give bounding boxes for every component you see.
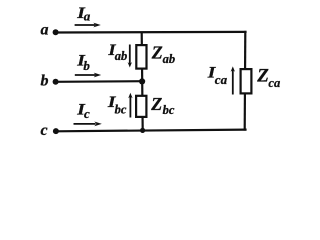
impedance Z_ab body <box>136 45 146 69</box>
svg-text:Z: Z <box>150 94 162 114</box>
terminal node a <box>53 29 59 35</box>
impedance Z_ca body <box>241 69 252 93</box>
label I_a <box>76 5 91 24</box>
svg-text:b: b <box>83 58 90 73</box>
svg-text:a: a <box>84 8 91 23</box>
junction dot on c line <box>140 128 145 133</box>
svg-text:ab: ab <box>115 49 128 63</box>
svg-text:Z: Z <box>256 65 269 86</box>
impedance Z_bc body <box>136 96 146 117</box>
current arrow I_a <box>75 23 101 28</box>
wire left branch vertical (a to c via Z_ab, Z_bc) <box>142 32 143 131</box>
wire phase b horizontal <box>56 80 145 83</box>
label I_ca <box>207 65 228 88</box>
current arrow I_ab (downward) <box>128 45 132 68</box>
current arrow I_bc (upward) <box>128 93 132 118</box>
label Z_ab <box>151 43 175 67</box>
wire phase c horizontal <box>56 130 247 132</box>
label I_b <box>76 53 90 74</box>
current arrow I_b <box>75 73 101 78</box>
label I_ab <box>107 42 127 63</box>
svg-text:bc: bc <box>115 103 127 117</box>
terminal node c <box>53 128 59 134</box>
svg-text:ca: ca <box>268 76 280 90</box>
terminal node b <box>53 79 59 85</box>
wire phase a horizontal <box>56 31 247 34</box>
svg-text:c: c <box>84 106 90 121</box>
svg-text:ab: ab <box>163 52 176 66</box>
current arrow I_ca (upward) <box>231 66 235 94</box>
label I_c <box>76 102 90 122</box>
svg-text:c: c <box>41 122 48 139</box>
svg-text:bc: bc <box>163 103 175 117</box>
wire right vertical (a to c via Z_ca) <box>244 31 247 131</box>
label Z_bc <box>150 94 175 117</box>
label I_bc <box>107 94 127 117</box>
svg-text:a: a <box>41 22 49 39</box>
svg-text:ca: ca <box>215 72 228 87</box>
svg-text:b: b <box>41 72 49 89</box>
label Z_ca <box>256 65 280 89</box>
current arrow I_c <box>74 122 102 127</box>
junction dot on b line <box>139 78 145 84</box>
svg-text:Z: Z <box>151 43 163 63</box>
